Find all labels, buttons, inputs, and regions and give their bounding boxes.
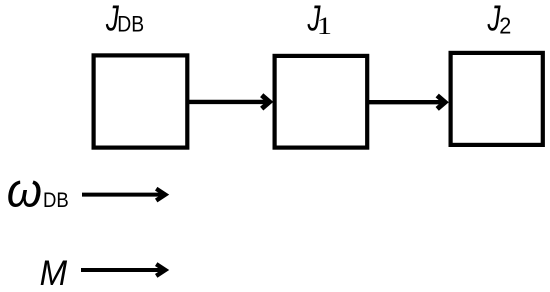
svg-text:DB: DB	[43, 189, 69, 212]
svg-text:ω: ω	[7, 162, 42, 217]
svg-text:M: M	[40, 254, 68, 292]
arrow box1 to box2	[189, 95, 270, 108]
label M	[40, 254, 68, 292]
arrow M	[81, 264, 165, 276]
label J2	[487, 0, 501, 38]
label J1	[307, 0, 321, 38]
svg-text:DB: DB	[117, 13, 144, 37]
svg-text:1: 1	[317, 12, 332, 40]
arrow box2 to box3	[366, 96, 445, 109]
box J_DB	[94, 55, 188, 147]
arrow omega	[82, 189, 165, 201]
svg-text:2: 2	[499, 13, 511, 39]
box J2	[451, 53, 543, 145]
label omega_DB	[7, 162, 42, 217]
label J_DB	[105, 0, 119, 38]
box J1	[275, 56, 368, 148]
